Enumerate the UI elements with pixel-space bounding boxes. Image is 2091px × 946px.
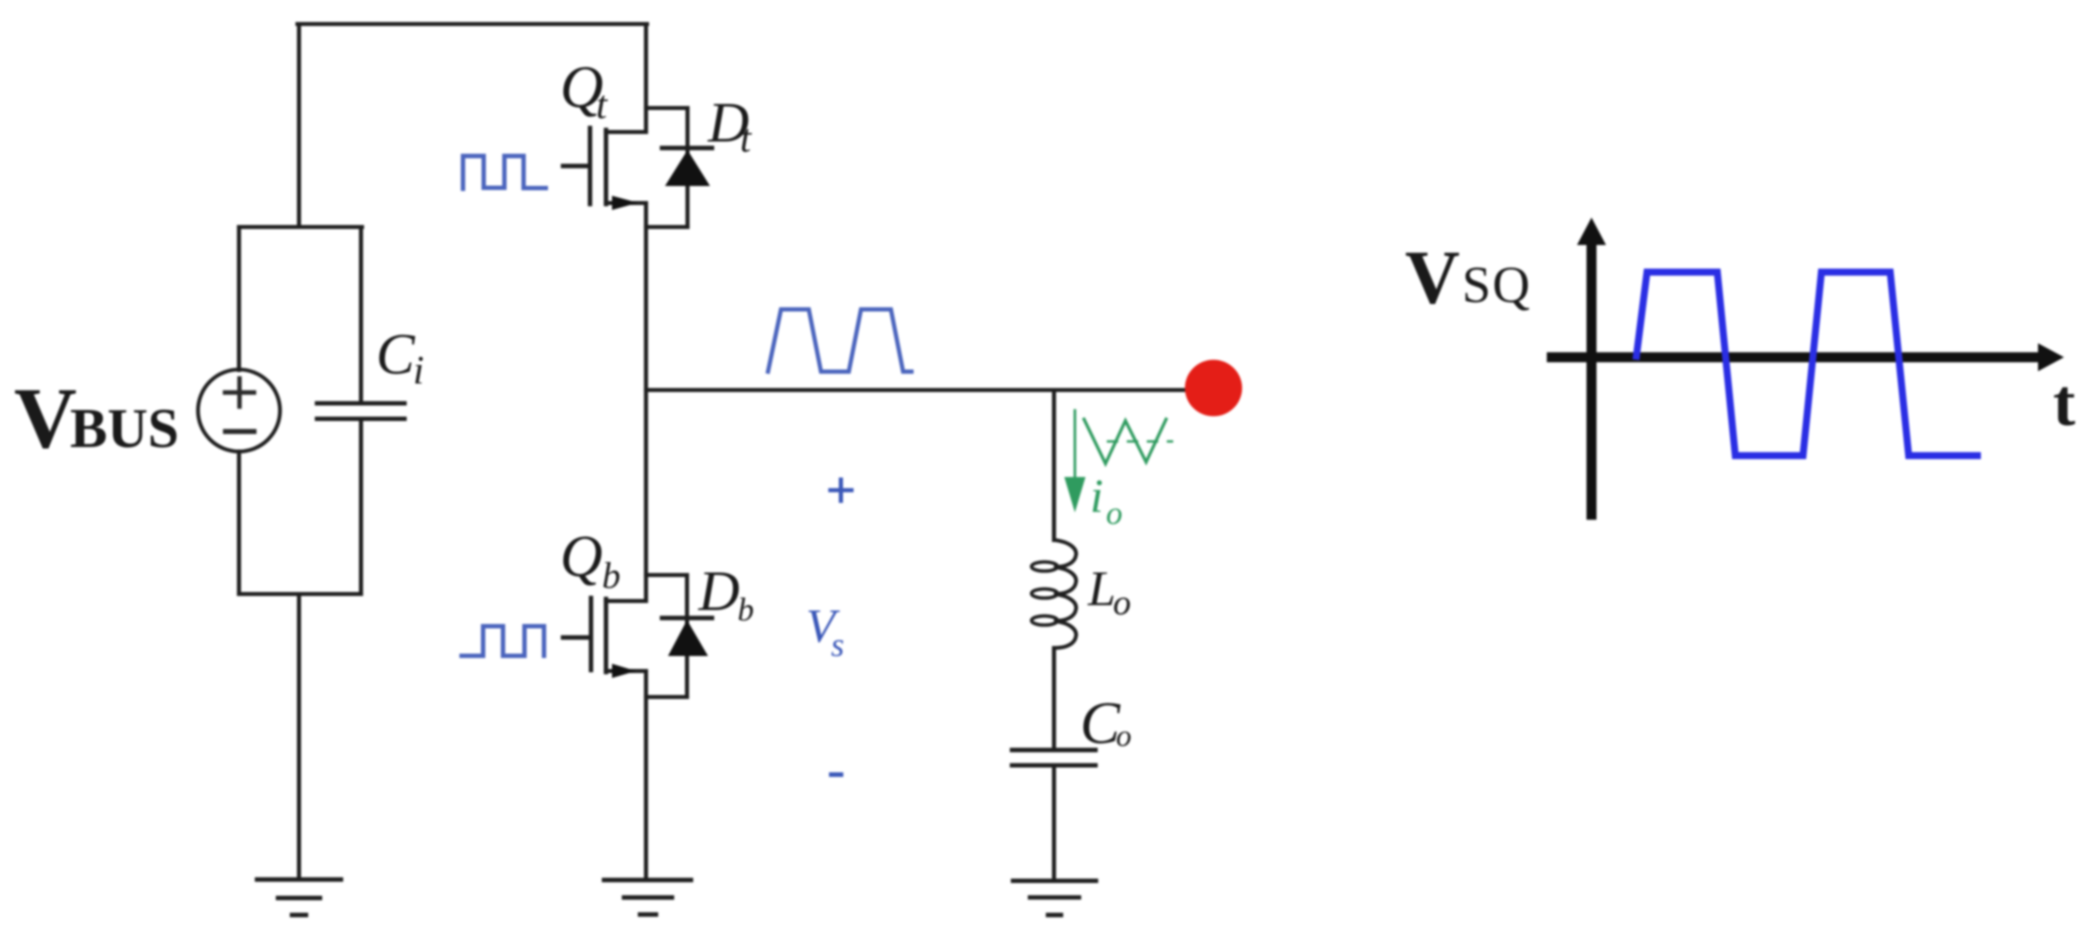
capacitor Ci top plate (317, 401, 405, 405)
transistor Qt source lead (606, 201, 646, 205)
svg-text:Q: Q (560, 523, 603, 589)
transistor Qb gate bar (589, 598, 593, 670)
svg-text:b: b (602, 556, 621, 597)
wire main rail middle (644, 203, 648, 601)
wire main rail lower (644, 671, 648, 878)
inductor Lo coil (1054, 540, 1076, 648)
gate drive square wave top (blue) (463, 156, 546, 189)
plot y-axis VSQ (1587, 242, 1597, 515)
wire main rail upper (drain Qt) (644, 24, 648, 132)
transistor Qt gate bar (588, 128, 592, 204)
svg-text:s: s (831, 627, 844, 664)
svg-text:V: V (14, 369, 77, 466)
wire Vbus top lead (237, 227, 241, 370)
wire cap to ground (1052, 766, 1056, 880)
diode Dt triangle (665, 150, 710, 186)
diode Dt bottom branch (646, 225, 688, 229)
svg-text:i: i (1090, 470, 1103, 523)
gate drive square wave bottom (blue) (462, 626, 544, 656)
capacitor Co top plate (1012, 748, 1096, 752)
ground output (1013, 879, 1096, 883)
svg-text:BUS: BUS (70, 398, 179, 460)
diode Db bottom branch (646, 695, 687, 699)
wire top bus horizontal (298, 22, 648, 26)
wire output branch vertical (1052, 390, 1056, 540)
VBUS minus sign (226, 429, 255, 434)
wire inductor to cap (1052, 648, 1056, 750)
svg-text:C: C (1080, 690, 1121, 756)
voltage source VBUS circle (198, 370, 280, 452)
svg-text:o: o (1116, 718, 1132, 753)
label plus (Vs) (830, 480, 851, 501)
svg-text:i: i (413, 348, 424, 393)
transistor Qt channel bar (604, 130, 608, 204)
plot x-axis t (1552, 352, 2039, 362)
wire source/cap bottom joint (239, 592, 361, 596)
svg-text:o: o (1106, 496, 1123, 532)
svg-text:b: b (738, 593, 755, 629)
ground middle (604, 878, 691, 882)
switch node waveform (blue trapezoids) (768, 309, 912, 371)
wire Vbus bottom lead (237, 452, 241, 595)
diode Dt vertical branch (685, 108, 689, 227)
VBUS plus sign (225, 379, 254, 407)
transistor Qb gate lead (563, 635, 589, 639)
diode Dt top branch (646, 106, 688, 110)
transistor Qt source arrow (612, 196, 638, 210)
diode Db vertical branch (685, 575, 689, 697)
wire Ci top lead (359, 227, 363, 403)
wire source/cap top joint (239, 225, 362, 229)
node switch (red dot) (1185, 360, 1242, 417)
svg-text:SQ: SQ (1462, 257, 1531, 314)
transistor Qb drain lead (606, 599, 646, 603)
svg-text:t: t (2053, 366, 2076, 440)
svg-text:D: D (698, 560, 740, 623)
wire left ground drop (297, 594, 301, 878)
svg-text:L: L (1087, 560, 1116, 616)
svg-text:C: C (376, 322, 416, 387)
transistor Qb channel bar (604, 599, 608, 672)
svg-text:V: V (1405, 236, 1460, 320)
label minus (Vs) (831, 772, 841, 777)
diode Db triangle (668, 620, 708, 656)
transistor Qt gate lead (563, 164, 588, 168)
wire switch node horizontal (646, 388, 1213, 392)
svg-text:t: t (596, 82, 608, 127)
diode Dt cathode bar (662, 146, 712, 150)
ground left (257, 877, 341, 881)
ripple average dashed line (green) (1108, 440, 1172, 442)
current io arrow (green) (1074, 410, 1077, 478)
transistor Qb source lead (606, 669, 646, 673)
capacitor Ci bottom plate (317, 417, 405, 421)
current ripple zigzag (green) (1084, 419, 1166, 463)
transistor Qb source arrow (612, 664, 636, 678)
waveform VSQ (blue) (1636, 272, 1977, 456)
diode Db top branch (646, 573, 687, 577)
diode Db cathode bar (662, 616, 712, 620)
transistor Qt drain lead (606, 130, 646, 134)
wire Ci bottom lead (359, 419, 363, 594)
svg-text:t: t (740, 116, 752, 161)
wire top bus left drop (297, 24, 301, 227)
capacitor Co bottom plate (1012, 763, 1096, 767)
svg-text:o: o (1113, 583, 1131, 623)
